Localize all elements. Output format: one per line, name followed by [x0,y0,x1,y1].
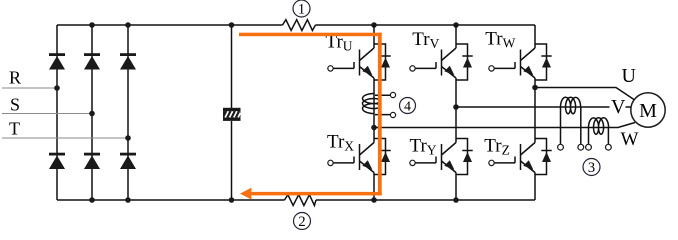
wire capacitor column bottom [231,121,233,200]
label V [610,96,627,118]
diode D5 [84,153,100,169]
circled number 3 [583,159,600,177]
node U leg midpoint [371,125,377,131]
orange current path top segment [239,33,382,37]
wire rectifier column 3 [127,25,129,200]
transistor TrZ (IGBT) [489,139,552,175]
node R junction [54,85,60,91]
wire output line U [535,88,634,100]
svg-text:TrV: TrV [412,29,439,51]
svg-text:R: R [9,68,21,88]
inductor L3a (current detector coil on V line) [558,97,584,150]
svg-text:TrZ: TrZ [484,136,510,158]
circled number 4 [400,98,416,115]
node capacitor bottom [229,197,235,203]
node bottom rail dots [89,197,95,203]
wire leg W [534,25,536,200]
diode D1 [49,53,65,69]
transistor TrV (IGBT) [410,44,473,80]
svg-text:TrX: TrX [327,132,354,154]
svg-text:3: 3 [588,160,595,176]
wire top DC rail left segment [57,24,283,26]
orange current path vertical segment [378,33,382,196]
svg-text:2: 2 [298,214,305,230]
wire rectifier column 2 [91,25,93,200]
wire bottom DC rail left segment [57,199,285,201]
node top rail dots [89,22,95,28]
svg-text:U: U [622,65,637,87]
transistor TrX (IGBT) [328,139,391,175]
diode D4 [49,153,65,169]
node capacitor top [229,22,235,28]
resistor R1 (braking resistor, top) [283,20,316,31]
transistor TrY (IGBT) [410,139,473,175]
wire input S [2,113,92,115]
wire output line W [374,123,635,128]
node S junction [89,111,95,117]
motor M [631,93,665,127]
svg-text:TrW: TrW [485,29,515,51]
wire rectifier column 1 [56,25,58,200]
svg-text:1: 1 [298,2,305,18]
wire leg V [455,25,457,200]
resistor R2 (braking resistor, bottom) [285,195,317,206]
wire bottom DC rail right segment [316,199,535,201]
orange current path bottom segment [251,192,382,196]
node T junction [125,135,131,141]
node V leg midpoint [453,104,459,110]
transistor TrW (IGBT) [489,44,552,80]
svg-text:TrY: TrY [410,136,437,158]
inductor L4 (current detector coil on U leg) [363,92,396,117]
node W leg midpoint [532,85,538,91]
wire input R [2,87,57,89]
capacitor C1 (DC link electrolytic) [223,108,241,121]
svg-text:4: 4 [404,100,411,115]
wire leg U upper [373,25,375,200]
svg-text:T: T [9,119,20,139]
wire input T [2,137,128,139]
svg-text:S: S [10,95,20,115]
svg-text:W: W [621,129,639,150]
wire capacitor column top [231,25,233,108]
diode D3 [120,53,136,69]
transistor TrU (IGBT) [328,44,391,80]
svg-text:M: M [639,100,657,122]
inductor L3b (current detector coil on W line) [586,118,612,150]
circled number 1 [293,0,310,18]
circled number 2 [294,213,311,231]
diode D6 [120,153,136,169]
diode D2 [84,53,100,69]
wire output line V [456,106,631,108]
orange arrowhead [240,188,252,200]
svg-text:V: V [611,96,626,118]
wire top DC rail right segment [316,24,536,26]
